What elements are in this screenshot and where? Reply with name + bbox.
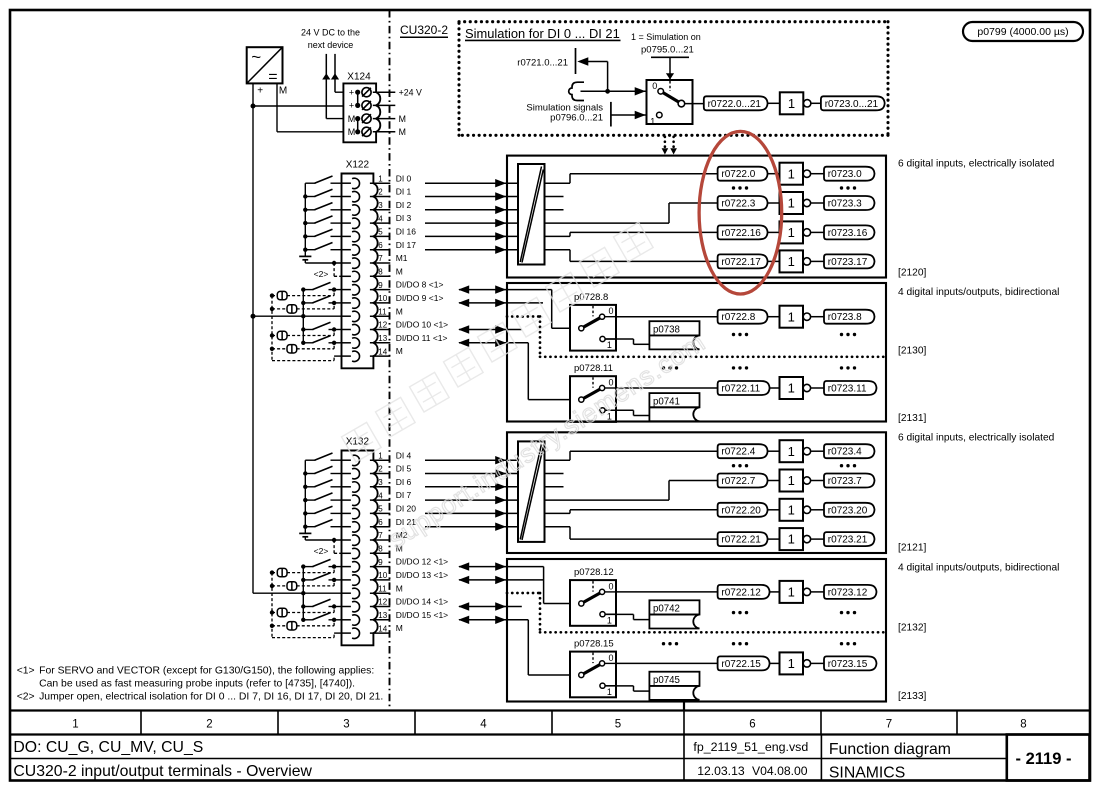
svg-text:r0723.21: r0723.21 [828, 535, 868, 546]
svg-text:~: ~ [251, 48, 261, 67]
svg-text:DI/DO 15 <1>: DI/DO 15 <1> [396, 610, 448, 620]
svg-text:1: 1 [788, 473, 795, 488]
svg-text:r0723.0...21: r0723.0...21 [825, 99, 879, 110]
svg-text:=: = [268, 68, 277, 85]
svg-text:Jumper open, electrical isolat: Jumper open, electrical isolation for DI… [39, 692, 383, 703]
svg-text:DI 17: DI 17 [396, 240, 417, 250]
svg-text:DI/DO 12 <1>: DI/DO 12 <1> [396, 557, 448, 567]
svg-text:r0722.16: r0722.16 [721, 228, 761, 239]
svg-text:9: 9 [378, 558, 383, 567]
svg-text:1: 1 [788, 309, 795, 324]
svg-text:DI 0: DI 0 [396, 173, 412, 183]
svg-text:r0722.0...21: r0722.0...21 [708, 99, 762, 110]
svg-text:fp_2119_51_eng.vsd: fp_2119_51_eng.vsd [693, 740, 808, 754]
svg-text:DI/DO 13 <1>: DI/DO 13 <1> [396, 570, 448, 580]
svg-text:r0723.15: r0723.15 [828, 659, 868, 670]
svg-text:V04.08.00: V04.08.00 [752, 764, 808, 778]
svg-text:p0741: p0741 [653, 396, 680, 407]
svg-text:5: 5 [378, 228, 383, 237]
svg-text:p0795.0...21: p0795.0...21 [641, 45, 694, 56]
svg-text:DI 7: DI 7 [396, 490, 412, 500]
svg-text:1: 1 [788, 656, 795, 671]
svg-text:r0722.12: r0722.12 [721, 587, 761, 598]
svg-text:6 digital inputs, electrically: 6 digital inputs, electrically isolated [898, 433, 1055, 444]
svg-text:- 2119 -: - 2119 - [1016, 750, 1072, 768]
svg-text:r0722.7: r0722.7 [721, 476, 755, 487]
svg-text:13: 13 [378, 611, 387, 620]
svg-text:11: 11 [378, 584, 387, 593]
svg-text:11: 11 [378, 307, 387, 316]
svg-text:[2131]: [2131] [898, 413, 926, 424]
svg-text:DI 6: DI 6 [396, 477, 412, 487]
svg-text:M: M [396, 346, 403, 356]
svg-text:[2130]: [2130] [898, 346, 926, 357]
svg-text:Can be used as fast measuring: Can be used as fast measuring probe inpu… [39, 679, 355, 690]
svg-text:CU320-2: CU320-2 [400, 23, 448, 37]
svg-text:r0722.3: r0722.3 [721, 199, 755, 210]
svg-text:r0723.4: r0723.4 [828, 447, 862, 458]
svg-text:DI 16: DI 16 [396, 227, 417, 237]
svg-text:6 digital inputs, electrically: 6 digital inputs, electrically isolated [898, 159, 1055, 170]
svg-text:9: 9 [378, 281, 383, 290]
svg-text:+: + [257, 85, 263, 96]
svg-text:DI/DO 8 <1>: DI/DO 8 <1> [396, 280, 444, 290]
svg-text:14: 14 [378, 624, 387, 633]
svg-text:0: 0 [652, 81, 657, 91]
svg-text:[2132]: [2132] [898, 623, 926, 634]
svg-text:<2>: <2> [17, 692, 35, 703]
svg-text:p0738: p0738 [653, 324, 680, 335]
svg-text:1: 1 [788, 502, 795, 517]
svg-text:r0723.3: r0723.3 [828, 199, 862, 210]
svg-text:r0723.20: r0723.20 [828, 505, 868, 516]
svg-text:r0723.11: r0723.11 [828, 384, 867, 395]
svg-text:r0722.20: r0722.20 [721, 505, 761, 516]
svg-text:p0742: p0742 [653, 604, 680, 615]
svg-text:1: 1 [378, 451, 383, 460]
svg-text:1: 1 [788, 444, 795, 459]
svg-text:24 V DC to the: 24 V DC to the [301, 27, 360, 37]
svg-text:<1>: <1> [17, 666, 35, 677]
svg-text:5: 5 [378, 505, 383, 514]
svg-text:10: 10 [378, 294, 387, 303]
svg-text:r0722.21: r0722.21 [721, 535, 761, 546]
svg-text:M: M [396, 623, 403, 633]
svg-text:<2>: <2> [314, 546, 329, 556]
svg-text:7: 7 [886, 719, 892, 731]
svg-text:DI/DO 10 <1>: DI/DO 10 <1> [396, 320, 448, 330]
svg-text:6: 6 [378, 241, 383, 250]
svg-text:<2>: <2> [314, 269, 329, 279]
svg-text:r0723.16: r0723.16 [828, 228, 868, 239]
svg-text:1: 1 [788, 532, 795, 547]
svg-text:1: 1 [788, 166, 795, 181]
svg-text:M: M [348, 114, 356, 124]
svg-text:r0723.17: r0723.17 [828, 257, 868, 268]
svg-text:Function diagram: Function diagram [829, 741, 951, 758]
svg-text:r0721.0...21: r0721.0...21 [517, 58, 568, 69]
svg-text:4 digital inputs/outputs, bidi: 4 digital inputs/outputs, bidirectional [898, 287, 1059, 298]
svg-text:2: 2 [378, 465, 383, 474]
svg-text:3: 3 [378, 478, 383, 487]
svg-text:2: 2 [378, 188, 383, 197]
svg-text:1: 1 [788, 225, 795, 240]
svg-text:DI/DO 9 <1>: DI/DO 9 <1> [396, 293, 444, 303]
svg-text:2: 2 [206, 719, 212, 731]
svg-text:1: 1 [788, 96, 795, 111]
svg-text:1: 1 [788, 585, 795, 600]
svg-text:DI 2: DI 2 [396, 200, 412, 210]
svg-text:M: M [279, 86, 287, 97]
svg-text:r0722.4: r0722.4 [721, 447, 755, 458]
svg-text:next device: next device [308, 40, 354, 50]
svg-text:13: 13 [378, 334, 387, 343]
svg-text:10: 10 [378, 571, 387, 580]
svg-text:p0728.12: p0728.12 [574, 567, 614, 578]
svg-text:1: 1 [607, 340, 612, 350]
svg-text:4: 4 [378, 491, 383, 500]
svg-text:12: 12 [378, 598, 387, 607]
svg-text:r0722.8: r0722.8 [721, 312, 755, 323]
svg-text:M: M [396, 266, 403, 276]
svg-text:8: 8 [1020, 719, 1026, 731]
svg-text:3: 3 [378, 201, 383, 210]
svg-text:For SERVO and VECTOR (except f: For SERVO and VECTOR (except for G130/G1… [39, 666, 374, 677]
svg-text:SINAMICS: SINAMICS [829, 765, 905, 782]
svg-text:r0722.15: r0722.15 [721, 659, 761, 670]
svg-text:6: 6 [749, 719, 755, 731]
svg-text:1: 1 [788, 196, 795, 211]
svg-text:p0728.15: p0728.15 [574, 639, 614, 650]
svg-text:r0723.8: r0723.8 [828, 312, 862, 323]
svg-text:0: 0 [609, 306, 614, 316]
svg-text:p0796.0...21: p0796.0...21 [550, 113, 603, 124]
svg-text:1: 1 [607, 687, 612, 697]
svg-text:1: 1 [788, 254, 795, 269]
svg-text:14: 14 [378, 347, 387, 356]
svg-text:12: 12 [378, 321, 387, 330]
svg-text:DI 4: DI 4 [396, 450, 412, 460]
svg-text:DO: CU_G, CU_MV, CU_S: DO: CU_G, CU_MV, CU_S [13, 739, 203, 756]
svg-text:r0722.17: r0722.17 [721, 257, 761, 268]
svg-text:r0723.7: r0723.7 [828, 476, 862, 487]
svg-text:0: 0 [609, 581, 614, 591]
svg-text:4: 4 [480, 719, 487, 731]
svg-text:X124: X124 [347, 72, 371, 83]
svg-text:r0723.0: r0723.0 [828, 169, 862, 180]
svg-text:r0722.11: r0722.11 [721, 384, 760, 395]
svg-text:3: 3 [343, 719, 349, 731]
svg-text:M: M [399, 114, 406, 124]
svg-text:4: 4 [378, 214, 383, 223]
svg-text:1 = Simulation on: 1 = Simulation on [631, 32, 701, 42]
svg-text:+: + [349, 101, 354, 111]
svg-text:M: M [348, 127, 356, 137]
svg-text:r0723.12: r0723.12 [828, 587, 868, 598]
svg-text:1: 1 [788, 381, 795, 396]
svg-text:p0728.11: p0728.11 [574, 363, 613, 374]
svg-text:8: 8 [378, 268, 383, 277]
svg-text:M1: M1 [396, 253, 408, 263]
svg-text:+24 V: +24 V [399, 88, 422, 98]
svg-text:[2133]: [2133] [898, 691, 926, 702]
svg-text:M: M [396, 306, 403, 316]
svg-text:DI 3: DI 3 [396, 213, 412, 223]
svg-text:7: 7 [378, 531, 383, 540]
svg-text:M: M [399, 127, 406, 137]
svg-text:1: 1 [378, 174, 383, 183]
svg-text:[2120]: [2120] [898, 268, 926, 279]
svg-text:4 digital inputs/outputs, bidi: 4 digital inputs/outputs, bidirectional [898, 563, 1059, 574]
svg-text:[2121]: [2121] [898, 543, 926, 554]
svg-text:M: M [396, 583, 403, 593]
svg-text:1: 1 [650, 116, 655, 126]
svg-text:6: 6 [378, 518, 383, 527]
svg-text:DI 1: DI 1 [396, 187, 412, 197]
svg-text:r0722.0: r0722.0 [721, 169, 755, 180]
svg-text:p0745: p0745 [653, 675, 680, 686]
svg-text:12.03.13: 12.03.13 [697, 764, 745, 778]
svg-text:Simulation for DI 0 ... DI 21: Simulation for DI 0 ... DI 21 [465, 26, 620, 41]
svg-text:1: 1 [72, 719, 78, 731]
svg-text:CU320-2 input/output terminals: CU320-2 input/output terminals - Overvie… [13, 763, 312, 780]
svg-text:X122: X122 [346, 160, 370, 171]
svg-text:DI 5: DI 5 [396, 464, 412, 474]
svg-text:1: 1 [607, 615, 612, 625]
svg-text:+: + [349, 88, 354, 98]
svg-text:7: 7 [378, 254, 383, 263]
svg-text:DI/DO 14 <1>: DI/DO 14 <1> [396, 597, 448, 607]
svg-text:0: 0 [609, 653, 614, 663]
svg-text:p0799 (4000.00 µs): p0799 (4000.00 µs) [977, 26, 1068, 38]
svg-text:DI/DO 11 <1>: DI/DO 11 <1> [396, 333, 448, 343]
svg-text:8: 8 [378, 545, 383, 554]
svg-text:5: 5 [615, 719, 621, 731]
